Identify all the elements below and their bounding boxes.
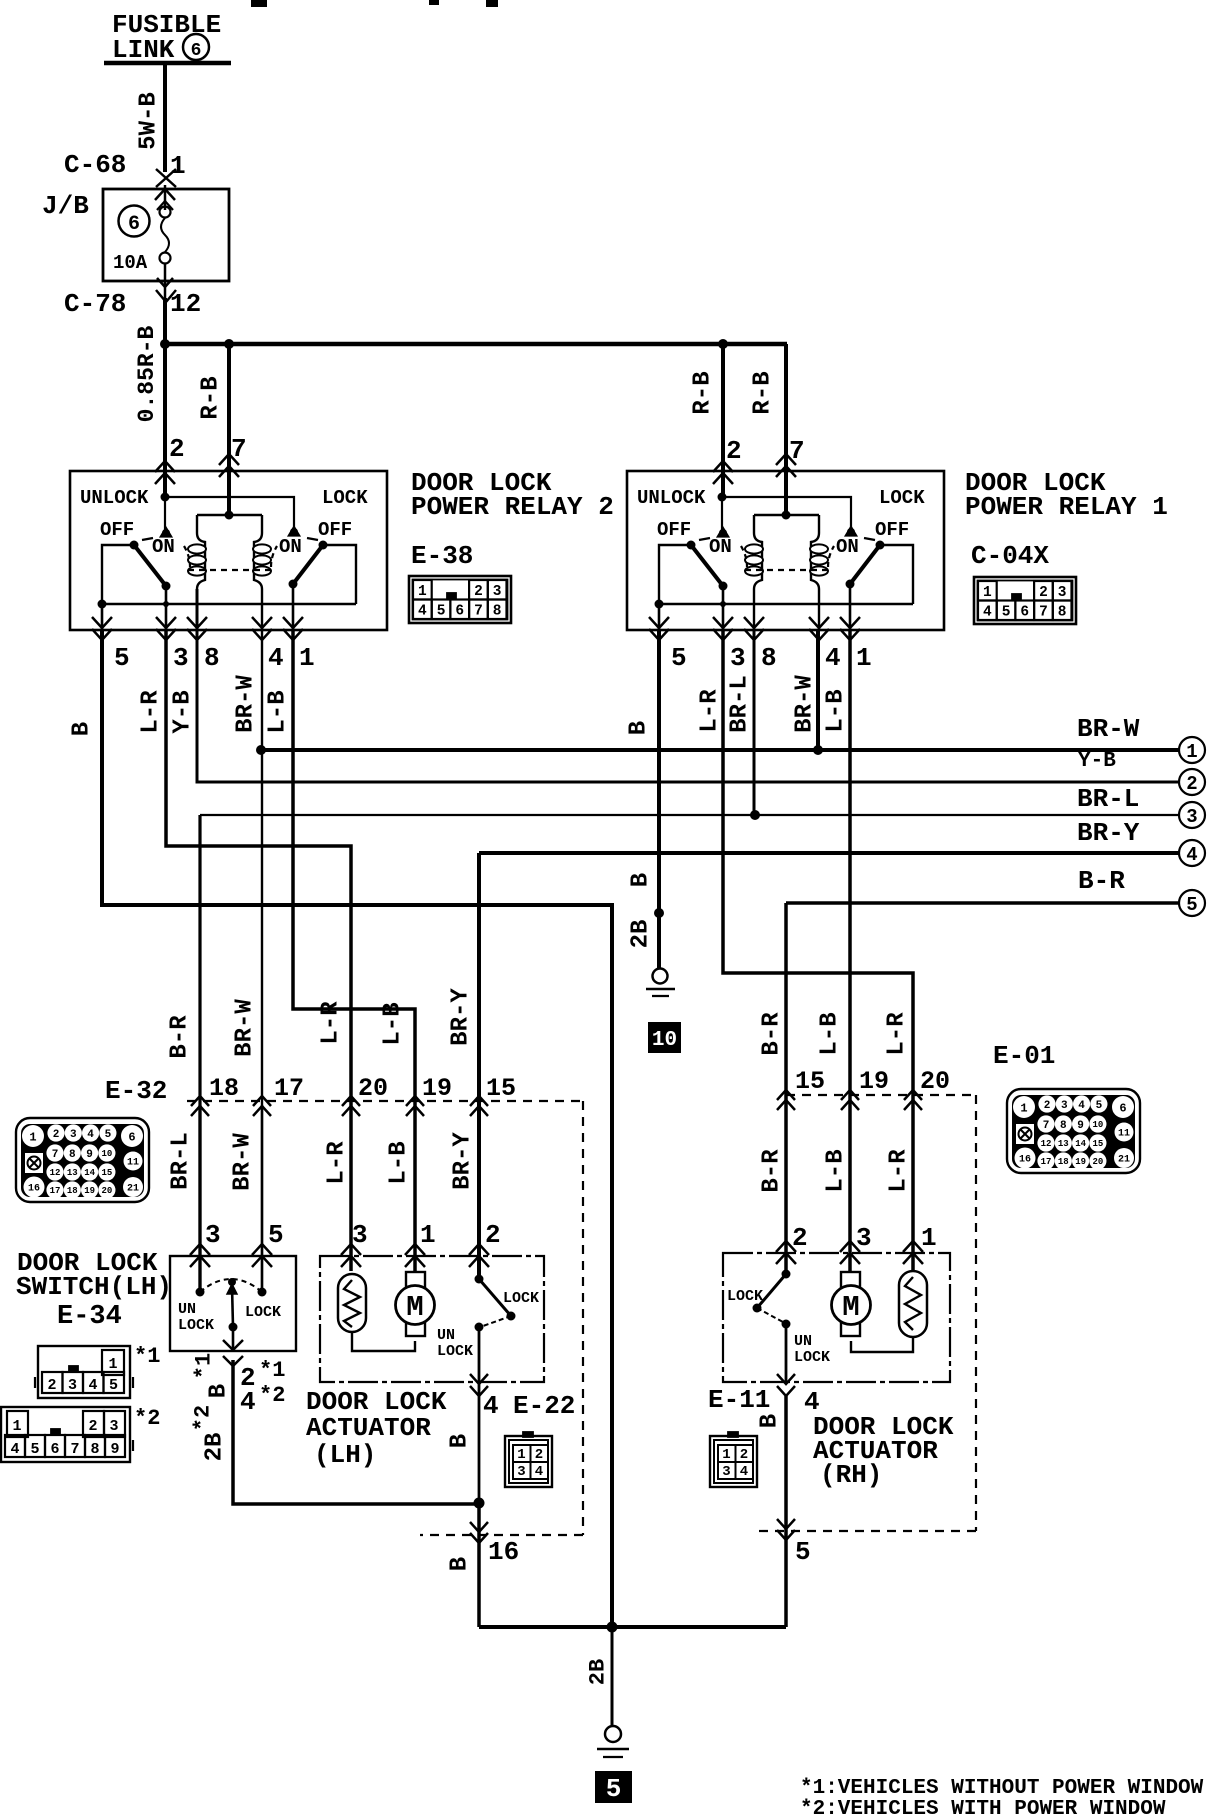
svg-text:2: 2 — [726, 436, 742, 466]
svg-text:L-B: L-B — [380, 1002, 407, 1045]
svg-text:1: 1 — [722, 1447, 730, 1463]
svg-text:13: 13 — [1058, 1139, 1069, 1149]
coil left — [754, 515, 762, 589]
wire 0.85R-B — [163, 298, 167, 497]
svg-text:BR-W: BR-W — [1077, 714, 1140, 744]
actuator LH switch arm — [479, 1279, 511, 1316]
on contact left — [164, 497, 166, 534]
svg-text:19: 19 — [84, 1186, 95, 1196]
node 2 — [1179, 769, 1205, 795]
svg-text:9: 9 — [86, 1149, 93, 1161]
svg-text:5W-B: 5W-B — [136, 92, 163, 150]
svg-text:UN: UN — [178, 1301, 196, 1318]
unlock junction — [718, 493, 727, 502]
wire L-R relay2 pin3 to E-32 pin20 — [166, 630, 351, 1271]
connector E-01 face — [1007, 1089, 1140, 1173]
resistor link wire — [352, 1332, 415, 1351]
pin 16 chevrons — [470, 1522, 488, 1532]
svg-text:L-R: L-R — [884, 1012, 911, 1056]
coil bus junction — [782, 511, 791, 520]
svg-text:LOCK: LOCK — [178, 1317, 214, 1334]
internal pin wires to box bottom — [101, 604, 104, 630]
svg-text:1: 1 — [1186, 741, 1197, 763]
junction — [750, 810, 760, 820]
svg-text:L-B: L-B — [823, 689, 850, 732]
pin 4 exit chevrons — [252, 617, 272, 628]
svg-text:7: 7 — [1039, 605, 1048, 621]
E-32 pin 18 chevrons — [191, 1096, 209, 1106]
motor-resistor link — [851, 1337, 913, 1352]
wire B-R bus to E-01 pin15 — [784, 903, 788, 1274]
relay1 pin2 entry chevrons — [713, 461, 733, 472]
svg-text:*1: *1 — [192, 1353, 217, 1379]
connector E-32 face — [16, 1118, 149, 1202]
svg-text:16: 16 — [488, 1537, 519, 1567]
svg-text:0.85R-B: 0.85R-B — [134, 325, 160, 422]
svg-text:4: 4 — [240, 1387, 256, 1417]
svg-text:*1: *1 — [259, 1358, 285, 1383]
coil right — [254, 515, 262, 589]
svg-text:BR-Y: BR-Y — [450, 1132, 477, 1190]
svg-text:5: 5 — [109, 1377, 118, 1394]
svg-text:2: 2 — [740, 1447, 748, 1463]
actuator RH exit chevrons — [777, 1374, 795, 1384]
pin 5 exit chevrons — [92, 617, 112, 628]
svg-text:10: 10 — [101, 1149, 112, 1159]
actuator RH pin2 entry chevrons — [776, 1241, 796, 1252]
svg-text:5: 5 — [30, 1441, 39, 1458]
bus line BR-L — [200, 814, 1179, 816]
fuse terminal bottom — [160, 253, 171, 264]
wire unlock to lock contact — [722, 497, 851, 531]
svg-text:20: 20 — [101, 1186, 112, 1196]
svg-text:4: 4 — [740, 1464, 748, 1480]
svg-text:16: 16 — [1019, 1155, 1031, 1166]
fuse terminal top — [160, 207, 171, 218]
actuator LH pin1 entry chevrons — [405, 1244, 425, 1255]
svg-text:8: 8 — [69, 1149, 76, 1161]
svg-text:9: 9 — [110, 1441, 119, 1458]
connector C-68 symbol — [156, 169, 176, 187]
connector E-32 dashed boundary — [187, 1100, 583, 1102]
page-edge mark — [486, 0, 498, 7]
svg-text:2: 2 — [169, 434, 185, 464]
connector E-34 *2 face — [0, 1407, 133, 1462]
svg-text:2B: 2B — [202, 1433, 229, 1462]
actuator LH switch dashed — [483, 1316, 511, 1326]
motor RH — [841, 1272, 860, 1288]
connector E-11 face — [710, 1432, 757, 1487]
svg-text:1: 1 — [983, 585, 992, 601]
relay bottom bus — [659, 603, 913, 605]
svg-text:Y-B: Y-B — [1078, 750, 1116, 773]
feed bus wire — [163, 342, 787, 347]
wire L-B relay1 pin1 to E-01 pin19 — [848, 630, 852, 1271]
svg-text:6: 6 — [1020, 605, 1029, 621]
relay1 pin7 entry chevrons — [776, 454, 796, 465]
svg-text:17: 17 — [1041, 1157, 1052, 1167]
svg-text:4: 4 — [88, 1377, 97, 1394]
switch left pivot wire — [102, 545, 166, 604]
J/B exit arrow — [157, 278, 173, 287]
svg-text:2B: 2B — [586, 1659, 611, 1685]
svg-text:E-38: E-38 — [411, 541, 473, 571]
svg-text:18: 18 — [209, 1074, 239, 1103]
svg-text:4: 4 — [825, 643, 841, 673]
svg-text:(LH): (LH) — [314, 1440, 376, 1470]
svg-text:4: 4 — [1078, 1100, 1085, 1112]
svg-text:1: 1 — [299, 643, 315, 673]
wire B relay1 pin5 to ground — [657, 630, 661, 968]
svg-text:14: 14 — [1075, 1139, 1086, 1149]
coil left — [197, 515, 205, 589]
coil bus junction — [225, 511, 234, 520]
svg-text:10: 10 — [1092, 1120, 1103, 1130]
svg-text:8: 8 — [1058, 605, 1067, 621]
svg-text:B-R: B-R — [1078, 866, 1125, 896]
coil right — [811, 515, 819, 589]
svg-text:5: 5 — [606, 1774, 622, 1804]
connector C-78 symbol — [156, 290, 176, 302]
junction — [474, 1498, 485, 1509]
connector E-22 face — [505, 1432, 552, 1487]
fuse element — [161, 218, 169, 252]
svg-text:2: 2 — [535, 1447, 543, 1463]
svg-text:10: 10 — [652, 1029, 677, 1052]
mech link dashed — [699, 538, 710, 540]
svg-text:C-78: C-78 — [64, 289, 126, 319]
svg-text:3: 3 — [1186, 806, 1197, 828]
svg-text:POWER RELAY 1: POWER RELAY 1 — [965, 492, 1168, 522]
svg-text:B-R: B-R — [759, 1149, 786, 1193]
svg-text:20: 20 — [358, 1074, 388, 1103]
svg-text:Y-B: Y-B — [170, 690, 197, 733]
actuator RH pin1 entry chevrons — [903, 1241, 923, 1252]
actuator RH switch arm — [757, 1274, 786, 1308]
svg-text:LOCK: LOCK — [794, 1349, 830, 1366]
svg-text:L-B: L-B — [386, 1141, 413, 1184]
svg-text:4: 4 — [1186, 844, 1197, 866]
relay2 pin7 entry chevrons — [219, 454, 239, 465]
svg-text:1: 1 — [1020, 1101, 1027, 1115]
switch left pivot wire — [659, 545, 723, 604]
svg-text:12: 12 — [1041, 1139, 1052, 1149]
svg-text:BR-Y: BR-Y — [448, 988, 475, 1046]
wire R-B relay1 pin2 — [721, 344, 725, 497]
svg-text:19: 19 — [859, 1067, 889, 1096]
actuator LH exit chevrons — [470, 1374, 488, 1384]
svg-text:L-B: L-B — [265, 690, 292, 733]
svg-text:16: 16 — [28, 1184, 40, 1195]
switch pin5 entry chevrons — [252, 1244, 272, 1255]
wire BR-W relay1 pin4 to bus — [816, 630, 820, 750]
svg-text:10A: 10A — [113, 252, 148, 274]
svg-text:BR-L: BR-L — [727, 675, 754, 733]
svg-text:3: 3 — [109, 1418, 118, 1435]
svg-text:8: 8 — [90, 1441, 99, 1458]
svg-text:19: 19 — [1075, 1157, 1086, 1167]
svg-text:21: 21 — [127, 1184, 139, 1195]
junction — [718, 339, 728, 349]
svg-text:4: 4 — [418, 604, 427, 620]
E-32 pin 20 chevrons — [342, 1096, 360, 1106]
pin 5 chevrons — [777, 1519, 795, 1529]
svg-text:5: 5 — [268, 1220, 284, 1250]
svg-text:13: 13 — [67, 1168, 78, 1178]
svg-text:1: 1 — [170, 151, 186, 181]
svg-text:LOCK: LOCK — [322, 487, 368, 509]
wire B relay2 pin5 to splice — [102, 630, 612, 1627]
bus line BR-Y — [479, 851, 1179, 855]
svg-text:8: 8 — [1060, 1120, 1067, 1132]
svg-text:OFF: OFF — [657, 519, 691, 541]
svg-text:3: 3 — [173, 643, 189, 673]
fusible link bus bar — [104, 61, 231, 66]
svg-text:E-01: E-01 — [993, 1041, 1055, 1071]
bus line BR-W — [261, 748, 1179, 752]
svg-text:2: 2 — [485, 1220, 501, 1250]
svg-text:6: 6 — [191, 41, 202, 61]
svg-text:4: 4 — [483, 1391, 499, 1421]
svg-text:15: 15 — [486, 1074, 516, 1103]
svg-text:3: 3 — [205, 1220, 221, 1250]
svg-text:E-11: E-11 — [708, 1385, 770, 1415]
actuator LH switch contact — [475, 1275, 484, 1284]
svg-text:1: 1 — [517, 1447, 525, 1463]
svg-text:B: B — [447, 1557, 474, 1571]
switch pin 3 wire — [198, 1105, 201, 1290]
svg-text:LOCK: LOCK — [437, 1343, 473, 1360]
svg-text:(RH): (RH) — [820, 1460, 882, 1490]
svg-text:J/B: J/B — [42, 191, 89, 221]
node 5 — [1179, 890, 1205, 916]
svg-text:2B: 2B — [628, 920, 655, 949]
svg-text:B: B — [206, 1384, 233, 1398]
svg-text:L-R: L-R — [138, 690, 165, 734]
junction — [607, 1622, 618, 1633]
bus line B-R — [786, 901, 1179, 905]
svg-text:5: 5 — [1186, 894, 1197, 916]
door lock actuator RH box — [723, 1253, 950, 1382]
wire BR-L relay1 pin8 to bus — [753, 630, 756, 815]
wire BR-W relay2 pin4 down to E-32 pin17 — [261, 630, 263, 1290]
E-01 pin 20 chevrons — [904, 1090, 922, 1100]
bus line Y-B — [197, 589, 1179, 782]
actuator RH pin3 entry chevrons — [840, 1241, 860, 1252]
svg-text:15: 15 — [101, 1168, 112, 1178]
svg-text:5: 5 — [1002, 605, 1011, 621]
svg-text:L-R: L-R — [697, 689, 724, 733]
fuse 6 circle — [119, 206, 150, 237]
svg-text:L-B: L-B — [817, 1012, 844, 1055]
switch pole — [229, 1323, 238, 1332]
svg-text:M: M — [842, 1291, 859, 1324]
svg-text:3: 3 — [1061, 1100, 1068, 1112]
svg-text:LOCK: LOCK — [503, 1290, 539, 1307]
coil top bus — [197, 514, 262, 516]
svg-text:*2: *2 — [259, 1383, 285, 1408]
wire L-B relay2 pin1 to E-32 pin19 — [293, 630, 415, 1271]
svg-text:B: B — [757, 1414, 784, 1428]
lock contact — [847, 528, 855, 536]
junction — [813, 745, 823, 755]
svg-text:17: 17 — [274, 1074, 304, 1103]
svg-text:2: 2 — [88, 1418, 97, 1435]
svg-text:1: 1 — [856, 643, 872, 673]
svg-text:*2: *2 — [134, 1406, 160, 1431]
svg-text:18: 18 — [1058, 1157, 1069, 1167]
svg-text:L-R: L-R — [318, 1001, 345, 1045]
svg-text:OFF: OFF — [875, 519, 909, 541]
junction 2B splice — [654, 908, 664, 918]
svg-text:L-R: L-R — [324, 1141, 351, 1185]
svg-text:5: 5 — [114, 643, 130, 673]
mech link dashed — [142, 538, 153, 540]
svg-text:B-R: B-R — [167, 1015, 194, 1059]
svg-text:*1: *1 — [134, 1344, 160, 1369]
svg-text:BR-W: BR-W — [232, 999, 259, 1057]
switch right pivot wire — [293, 545, 356, 604]
svg-text:UNLOCK: UNLOCK — [637, 487, 706, 509]
pin 1 exit chevrons — [840, 617, 860, 628]
node 3 — [1179, 802, 1205, 828]
svg-text:*1:VEHICLES WITHOUT POWER WIND: *1:VEHICLES WITHOUT POWER WINDOW — [800, 1777, 1204, 1800]
node 1 — [1179, 737, 1205, 763]
relay box — [627, 471, 944, 630]
switch pin 5 wire — [261, 1105, 263, 1290]
svg-text:UN: UN — [437, 1327, 455, 1344]
svg-text:3: 3 — [730, 643, 746, 673]
svg-text:C-68: C-68 — [64, 150, 126, 180]
svg-text:3: 3 — [517, 1464, 525, 1480]
E-01 pin 15 chevrons — [777, 1090, 795, 1100]
svg-text:2: 2 — [1044, 1100, 1051, 1112]
svg-text:12: 12 — [50, 1168, 61, 1178]
svg-text:L-B: L-B — [823, 1149, 850, 1192]
wire R-B relay1 pin7 — [784, 344, 788, 515]
switch arm — [232, 1286, 233, 1327]
svg-text:L-R: L-R — [886, 1149, 913, 1193]
relay2 pin2 entry chevrons — [155, 461, 175, 472]
svg-text:9: 9 — [1077, 1120, 1084, 1132]
contact UN LOCK — [196, 1288, 205, 1297]
svg-text:BR-Y: BR-Y — [1077, 818, 1140, 848]
page-edge mark — [429, 0, 439, 5]
actuator RH switch dashed — [757, 1308, 783, 1322]
pin 8 exit chevrons — [744, 617, 764, 628]
svg-text:7: 7 — [474, 604, 483, 620]
svg-text:19: 19 — [422, 1074, 452, 1103]
svg-text:20: 20 — [920, 1067, 950, 1096]
pin 3 exit chevrons — [156, 617, 176, 628]
connector C-04X face — [974, 577, 1076, 624]
switch left arm — [691, 545, 723, 586]
svg-text:2: 2 — [474, 584, 483, 600]
wire BR-Y bus down to E-32 pin15 — [477, 853, 481, 1279]
E-32 pin 17 chevrons — [253, 1096, 271, 1106]
connector E-34 *1 face — [35, 1346, 133, 1398]
svg-text:BR-W: BR-W — [792, 675, 819, 733]
svg-text:R-B: R-B — [690, 371, 717, 414]
svg-text:BR-W: BR-W — [230, 1133, 257, 1191]
pin 5 exit chevrons — [649, 617, 669, 628]
svg-text:LOCK: LOCK — [245, 1304, 281, 1321]
switch right arm — [293, 545, 323, 584]
wire RH pole to bottom bus — [784, 1396, 788, 1627]
svg-text:1: 1 — [418, 584, 427, 600]
svg-text:BR-L: BR-L — [168, 1132, 195, 1190]
svg-text:5: 5 — [795, 1537, 811, 1567]
svg-text:11: 11 — [1118, 1129, 1130, 1140]
svg-text:6: 6 — [128, 1130, 135, 1144]
resistor LH — [338, 1274, 366, 1332]
node 4 — [1179, 840, 1205, 866]
wire switch to junction — [233, 1360, 479, 1504]
black box 5 — [595, 1771, 632, 1803]
E-01 pin 19 chevrons — [841, 1090, 859, 1100]
svg-text:2: 2 — [1186, 773, 1197, 795]
actuator RH switch contact — [782, 1270, 791, 1279]
svg-text:18: 18 — [67, 1186, 78, 1196]
svg-text:5: 5 — [671, 643, 687, 673]
wire unlock to lock contact — [165, 497, 294, 531]
bottom bus wire — [479, 1625, 786, 1629]
svg-text:14: 14 — [84, 1168, 95, 1178]
svg-text:*2:VEHICLES WITH POWER WINDOW: *2:VEHICLES WITH POWER WINDOW — [800, 1798, 1166, 1820]
svg-text:21: 21 — [1118, 1155, 1130, 1166]
svg-text:4: 4 — [268, 643, 284, 673]
svg-text:6: 6 — [455, 604, 464, 620]
svg-text:E-32: E-32 — [105, 1076, 167, 1106]
svg-text:11: 11 — [127, 1158, 139, 1169]
svg-text:R-B: R-B — [198, 376, 225, 419]
wire 2B to ground — [611, 1627, 614, 1726]
wire BR-L E-32 pin18 up to bus — [198, 815, 201, 1290]
junction — [256, 745, 266, 755]
svg-text:5: 5 — [437, 604, 446, 620]
svg-text:SWITCH(LH): SWITCH(LH) — [16, 1272, 172, 1302]
svg-text:7: 7 — [70, 1441, 79, 1458]
wire fuse to exit — [164, 263, 167, 298]
svg-text:C-04X: C-04X — [971, 541, 1049, 571]
fusible link circled 6 — [183, 34, 209, 60]
switch right arm — [850, 545, 880, 584]
relay DOOR LOCK POWER RELAY 1 — [627, 471, 944, 673]
svg-text:15: 15 — [795, 1067, 825, 1096]
switch left arm — [134, 545, 166, 586]
ground symbol — [653, 969, 668, 984]
svg-text:3: 3 — [1058, 585, 1067, 601]
svg-text:ON: ON — [709, 536, 732, 558]
lock contact — [290, 528, 298, 536]
door lock actuator LH box — [320, 1256, 544, 1382]
unlock junction — [161, 493, 170, 502]
pin 4 exit chevrons — [809, 617, 829, 628]
svg-text:E-22: E-22 — [513, 1391, 575, 1421]
svg-text:3: 3 — [493, 584, 502, 600]
svg-text:8: 8 — [761, 643, 777, 673]
E-32 pin 19 chevrons — [406, 1096, 424, 1106]
switch exit chevrons — [223, 1340, 243, 1350]
wire L-R relay1 pin3 to E-01 pin20 — [723, 630, 913, 1271]
svg-text:15: 15 — [1092, 1139, 1103, 1149]
svg-text:20: 20 — [1092, 1157, 1103, 1167]
svg-text:2: 2 — [47, 1377, 56, 1394]
svg-text:M: M — [406, 1291, 423, 1324]
svg-text:B-R: B-R — [759, 1012, 786, 1056]
svg-text:LOCK: LOCK — [727, 1288, 763, 1305]
motor LH — [406, 1272, 425, 1288]
